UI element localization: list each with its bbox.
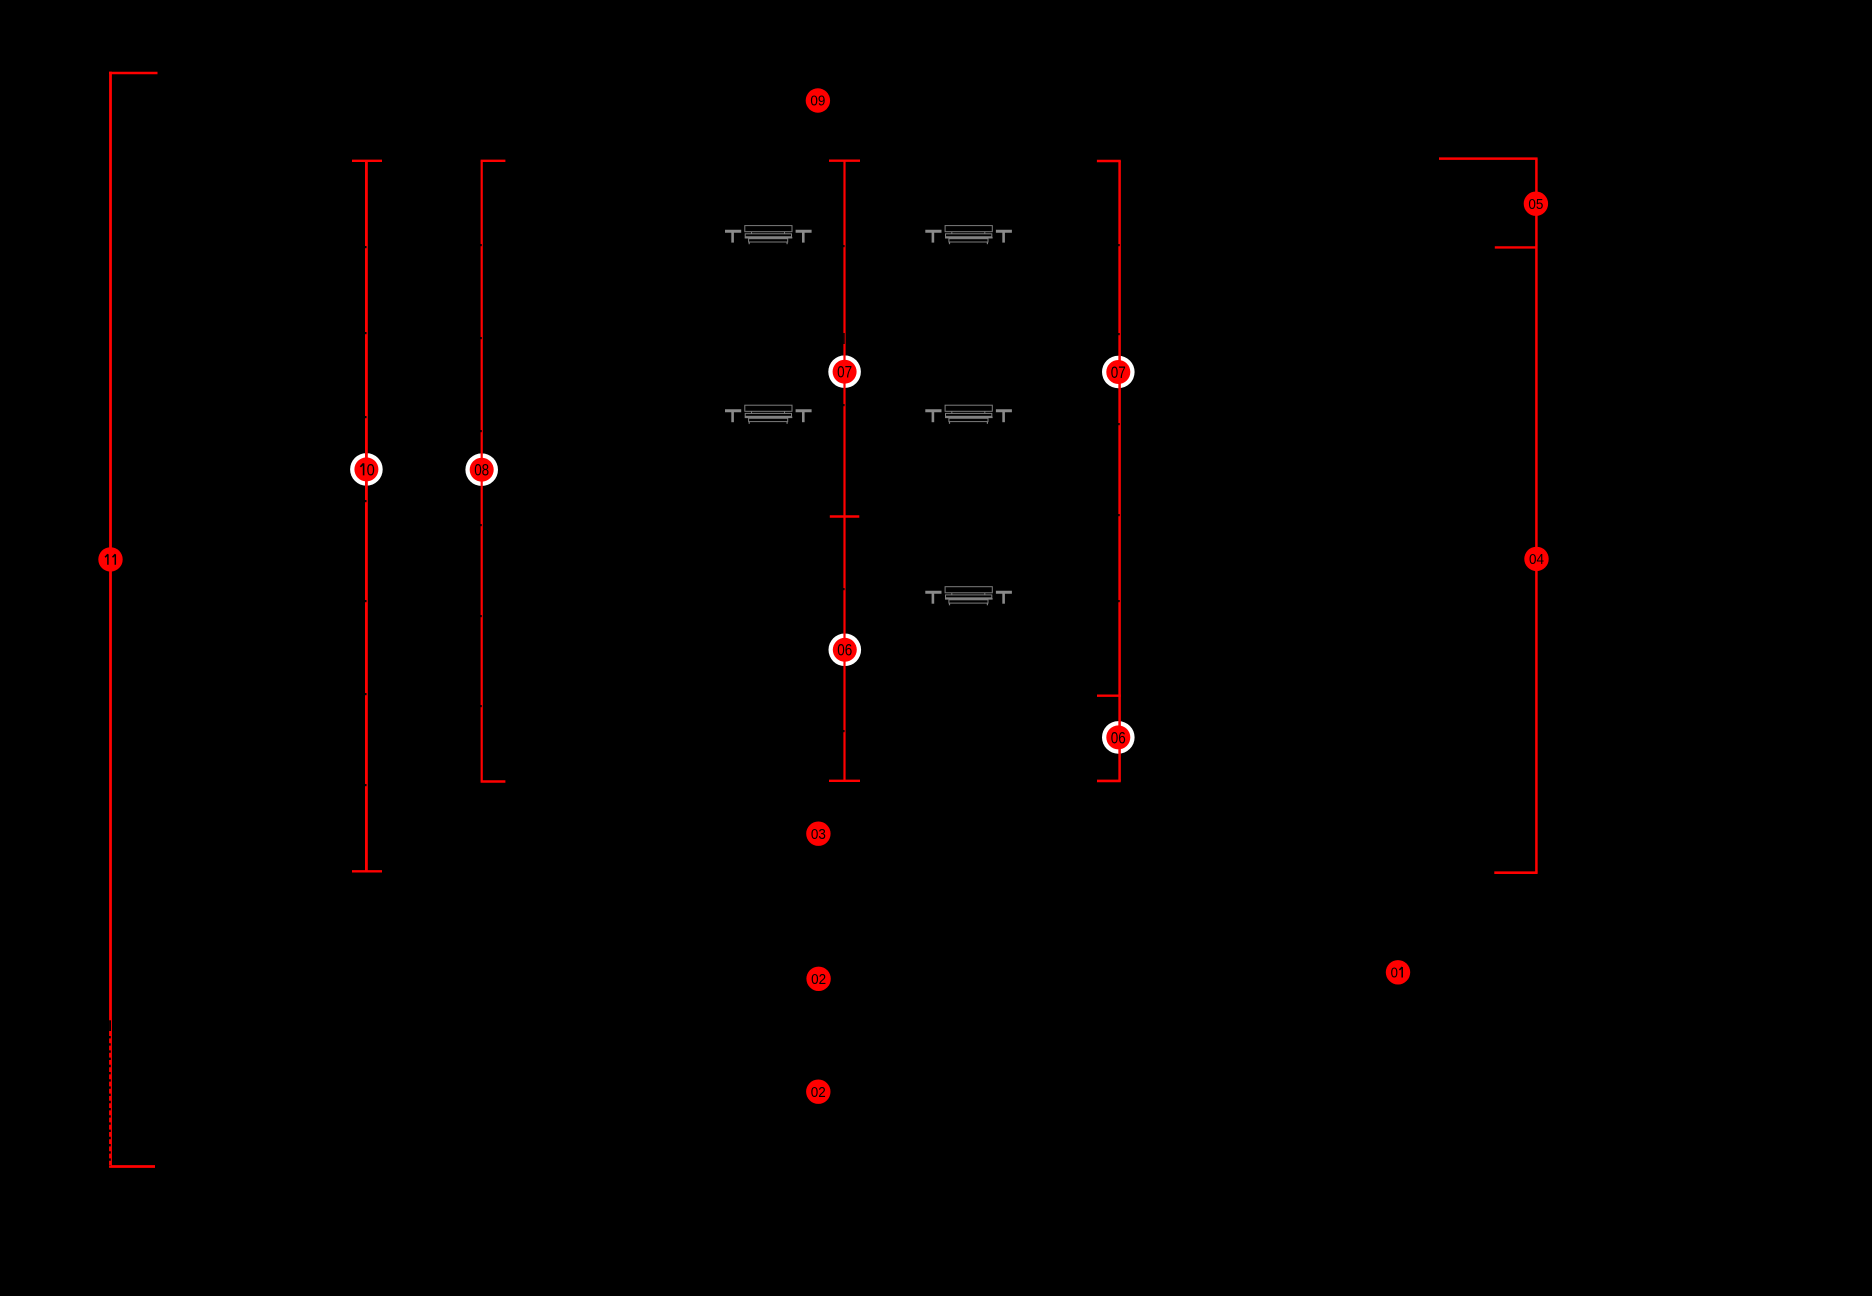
svg-text:07: 07 [837,364,852,382]
node 06 white ring [829,634,862,667]
wire: vertical line middle [843,161,845,781]
symbol S1 row1 left [725,226,812,245]
mid tick [830,515,860,517]
svg-text:02: 02 [811,1085,826,1101]
node 06 bubble [833,638,857,662]
node 02 bubble lower [806,1080,830,1104]
node 03 bubble [806,822,830,846]
svg-text:0: 0 [1391,966,1398,982]
top cap [109,72,157,75]
svg-text:05: 05 [1528,197,1543,213]
top horizontal [1439,157,1538,160]
black notch overlays [843,245,844,247]
node 02 bubble [806,967,830,991]
svg-text:02: 02 [811,972,826,988]
svg-text:06: 06 [837,642,852,660]
svg-text:08: 08 [474,462,489,480]
node 07b bubble [1106,360,1130,384]
black text overlap block [109,1020,111,1031]
node 06b white ring [1102,721,1135,754]
black notch overlays [480,244,481,246]
node 07 white ring [828,355,861,388]
node 10 bubble [354,457,378,481]
node 05 bubble [1524,192,1548,216]
node 08 bubble [470,458,494,482]
bottom cap [829,780,860,782]
top cap [352,160,382,162]
node 08 white ring [465,453,498,486]
svg-text:04: 04 [1529,552,1544,568]
mid tick (left) [1097,695,1121,697]
svg-text:03: 03 [811,827,826,843]
black notch overlays [1118,244,1120,246]
top cap (right) [481,160,506,162]
wire: vertical line 10 [365,161,368,872]
symbol S2 row1 right [925,226,1012,245]
bottom cap (right) [481,780,506,782]
svg-text:09: 09 [810,94,825,110]
top cap [829,159,860,161]
bottom cap [352,870,382,872]
wire: vertical line 11 [109,72,112,1167]
black dash overlay [109,1036,111,1166]
wire: vertical line 08 [481,161,483,782]
tick (left) [1495,246,1537,248]
symbol S5 row3 right [925,587,1012,606]
bottom foot (left) [1097,780,1121,783]
node 04 bubble [1524,547,1548,571]
node 11 bubble [98,547,122,571]
node 01 bubble (floating) [1386,960,1410,984]
node 07 bubble [833,360,857,384]
bottom foot (left) [1494,871,1537,874]
top cap (left) [1097,160,1121,162]
node 07b white ring [1102,356,1135,389]
svg-text:06: 06 [1111,729,1126,747]
bottom cap [109,1165,155,1168]
node 09 bubble [806,88,830,112]
svg-text:0: 0 [367,461,375,479]
wire: vertical line right-middle [1118,161,1121,781]
node 10 white ring [350,453,383,486]
wire: vertical line right [1535,159,1538,873]
symbol S4 row2 right [925,405,1012,424]
symbol S3 row2 left [725,405,812,424]
svg-text:07: 07 [1111,364,1126,382]
node 06b bubble [1106,725,1130,749]
black notch overlays [365,246,367,248]
